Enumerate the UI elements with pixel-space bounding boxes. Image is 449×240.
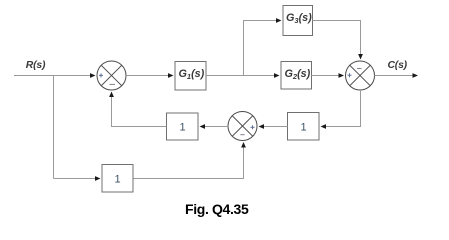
svg-text:Fig. Q4.35: Fig. Q4.35 (185, 201, 249, 217)
sign plus S1 left (99, 73, 103, 77)
block H1 value 1 (167, 113, 199, 140)
svg-text:1: 1 (180, 122, 186, 134)
wire G2 to S2 (312, 75, 340, 77)
summing junction S1 (97, 61, 126, 90)
block H3 value 1 (102, 165, 133, 193)
svg-text:R(s): R(s) (26, 60, 46, 71)
wire H2 to S3 (264, 126, 288, 128)
wire G3 to S2 top (313, 21, 361, 55)
summing junction S2 (346, 61, 375, 90)
arrowhead into G3 (276, 18, 282, 23)
wire bottom row to block H3 (54, 178, 96, 180)
sign minus S1 bottom (110, 83, 116, 85)
sign plus S3 right (251, 125, 255, 129)
wire S3 to H1 (205, 126, 228, 128)
node takeoff on input line (53, 76, 55, 179)
wire S2 bottom to H2 (326, 90, 361, 127)
arrowhead into G2 (274, 73, 280, 78)
svg-text:1: 1 (301, 122, 307, 134)
arrowhead up into S1 bottom (109, 92, 114, 98)
arrowhead into G1 (168, 73, 174, 78)
sign minus S3 bottom (240, 134, 244, 136)
block H2 value 1 (288, 113, 320, 141)
arrowhead into S3 right (259, 124, 265, 129)
arrowhead output end (413, 73, 419, 78)
block G2 (281, 62, 312, 90)
svg-text:1: 1 (115, 174, 121, 186)
arrowhead up into summing junction S3 (241, 142, 246, 148)
svg-text:C(s): C(s) (388, 60, 408, 71)
arrowhead into S2 (339, 73, 345, 78)
arrowhead down into summing junction S2 (358, 54, 363, 60)
wire H1 to S1 bottom (112, 97, 167, 127)
wire S1 to G1 (126, 75, 169, 77)
wire G1 to G2 (206, 75, 275, 77)
arrowhead into block H3 (95, 176, 101, 181)
sign minus S2 top (357, 68, 362, 70)
arrowhead into block H2 (321, 124, 327, 129)
svg-text:G1(s): G1(s) (179, 68, 205, 81)
label R(s) (26, 60, 46, 71)
arrowhead into summing junction S1 (90, 73, 96, 78)
wire input R(s) horizontal (14, 75, 91, 77)
summing junction S3 (228, 112, 257, 141)
svg-text:G3(s): G3(s) (286, 12, 312, 25)
caption Fig. Q4.35 (185, 201, 249, 217)
svg-text:G2(s): G2(s) (285, 68, 311, 81)
block G3 (283, 6, 313, 36)
block G1 (175, 62, 206, 91)
wire output C(s) (375, 75, 413, 77)
wire bottom row from H3 to middle junction S3 (133, 147, 244, 179)
label C(s) (388, 60, 408, 71)
arrowhead into block H1 (200, 124, 206, 129)
sign plus S2 left (348, 73, 352, 77)
node takeoff to G3 branch (244, 21, 277, 76)
